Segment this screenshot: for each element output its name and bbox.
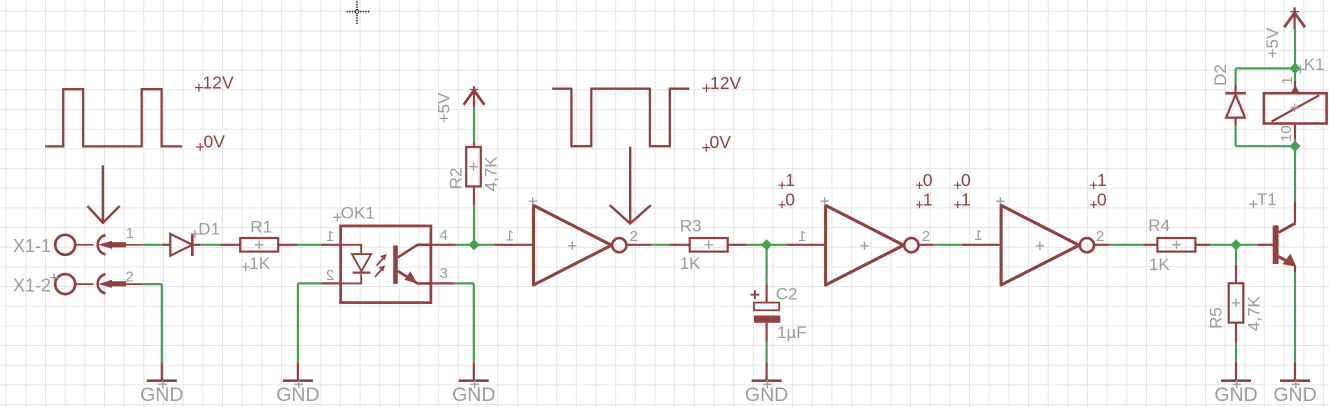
resistor R2 (466, 147, 481, 186)
svg-text:R3: R3 (680, 216, 702, 235)
ground GND (OK1 pin3) (473, 362, 475, 380)
svg-text:R4: R4 (1148, 216, 1170, 235)
resistor R3 (690, 238, 728, 252)
svg-text:1K: 1K (680, 254, 701, 273)
svg-text:0: 0 (923, 170, 933, 190)
ground GND (OK1 pin2) (297, 362, 299, 380)
value 1K (242, 263, 250, 271)
inverter gate U1C (1001, 205, 1079, 285)
relay K1 (1294, 81, 1296, 93)
capacitor C2 (polarized) (754, 303, 779, 311)
wire node to R5 (1235, 245, 1237, 265)
wire node to C2 (765, 245, 767, 284)
svg-text:1: 1 (923, 190, 933, 210)
ground GND (T1 emitter) (1294, 362, 1296, 380)
svg-text:0V: 0V (204, 131, 226, 151)
svg-text:K1: K1 (1304, 55, 1325, 74)
transistor T1 (1258, 244, 1273, 246)
svg-text:GND: GND (276, 384, 319, 406)
label 12V (703, 84, 711, 92)
svg-text:1: 1 (798, 228, 806, 245)
waveform inverted 12V/0V (552, 89, 689, 147)
wire D2 branch bottom (1234, 125, 1236, 146)
wire node to IC1A input (474, 244, 494, 246)
svg-text:0V: 0V (710, 132, 732, 152)
OK1 phototransistor (393, 246, 398, 284)
annotation arrow 1 (102, 165, 104, 222)
svg-text:C2: C2 (776, 284, 798, 303)
ground GND (X1-2) (161, 362, 163, 380)
svg-text:1: 1 (126, 225, 134, 242)
wire OK1 pin2 to GND (298, 282, 321, 284)
svg-text:1: 1 (326, 228, 334, 245)
supply +5V (left) (473, 86, 475, 107)
svg-text:3: 3 (440, 265, 448, 282)
svg-text:0: 0 (961, 170, 971, 190)
wire U1C out to R4 (1109, 244, 1144, 246)
svg-text:0: 0 (785, 190, 795, 210)
annotation arrow 2 (629, 147, 631, 223)
wire U1A output pin (626, 244, 651, 246)
label K1 (1296, 65, 1304, 73)
svg-text:R2: R2 (447, 168, 466, 190)
wire R4 to base node (1210, 244, 1236, 246)
wire +5V to R2 (473, 107, 475, 142)
wire U1B to U1C (933, 244, 962, 246)
svg-text:GND: GND (140, 384, 183, 406)
svg-text:R5: R5 (1206, 307, 1225, 329)
svg-text:X1-2: X1-2 (13, 275, 51, 295)
OK1 light arrows (377, 258, 384, 265)
wire U1B output pin (919, 244, 934, 246)
wire node to U1B input (767, 244, 787, 246)
wire D2 branch top (1236, 67, 1295, 69)
wire +5V down (1294, 29, 1296, 68)
junction top node (1289, 63, 1300, 74)
logic levels 1/0 (1090, 182, 1097, 189)
svg-text:D2: D2 (1211, 64, 1230, 86)
junction node (468, 239, 479, 250)
logic levels 1/0 (779, 182, 786, 189)
junction node C2 (761, 239, 772, 250)
label 0V (702, 144, 710, 152)
svg-text:1: 1 (961, 190, 971, 210)
wire X1-2 to GND (143, 283, 162, 285)
wire R5 bottom pin (1235, 323, 1237, 343)
label OK1 (333, 213, 341, 221)
svg-text:0: 0 (1097, 190, 1107, 210)
svg-text:1µF: 1µF (777, 323, 807, 342)
svg-text:D1: D1 (198, 219, 220, 238)
connector X1-2 (55, 274, 75, 294)
wire R5 to GND (1235, 343, 1237, 363)
svg-text:4,7K: 4,7K (482, 156, 501, 192)
wire OK1 pin3 to GND (431, 282, 455, 284)
logic levels 0/1 (954, 182, 961, 189)
supply +5V (right) (1293, 7, 1295, 29)
wire U1C input pin (962, 244, 1001, 246)
wire X1-1 to D1 (143, 244, 162, 246)
label T1 (1249, 200, 1257, 208)
wire D1 to R1 (200, 244, 220, 246)
svg-text:T1: T1 (1257, 190, 1277, 209)
wire node to T1 base (1236, 244, 1258, 246)
svg-text:+5V: +5V (435, 92, 454, 123)
wire R2 bottom pin (473, 186, 475, 205)
svg-text:2: 2 (326, 267, 334, 284)
svg-text:1K: 1K (1149, 255, 1170, 274)
svg-text:2: 2 (922, 228, 930, 245)
label 0V (196, 143, 204, 151)
wire R4 left pin (1144, 244, 1158, 246)
wire R1 to OK1 (298, 244, 322, 246)
svg-text:+5V: +5V (1263, 27, 1282, 58)
wire U1A out to R3 (652, 244, 670, 246)
svg-text:GND: GND (1214, 384, 1257, 406)
wire relay to bottom node (1294, 139, 1296, 146)
wire R3 right pin (728, 244, 748, 246)
svg-text:2: 2 (630, 228, 638, 245)
wire R1 left pin (221, 244, 241, 246)
inverter gate U1B (826, 205, 904, 285)
ground GND (C2) (765, 362, 767, 380)
wire R4 right pin (1195, 244, 1210, 246)
wire collector (1294, 202, 1296, 224)
svg-text:12V: 12V (710, 73, 741, 93)
resistor R5 (1229, 283, 1244, 322)
label D1 (191, 230, 199, 238)
junction bottom node (1289, 141, 1300, 152)
diode D1 (170, 234, 192, 256)
svg-text:1: 1 (1279, 76, 1296, 84)
junction base node (1230, 239, 1241, 250)
svg-text:1: 1 (785, 170, 795, 190)
svg-text:GND: GND (745, 384, 788, 406)
wire OK1 pin4 to node (431, 244, 456, 246)
wire R1 right pin (278, 244, 298, 246)
wire R2 to node (473, 205, 475, 245)
svg-text:R1: R1 (250, 218, 272, 237)
cursor crosshair (347, 11, 349, 13)
wire C2 to GND (765, 341, 767, 362)
svg-text:1: 1 (506, 227, 514, 244)
OK1 internal LED (341, 245, 362, 284)
svg-text:1K: 1K (249, 254, 270, 273)
resistor R1 (240, 238, 278, 252)
wire R3 to node C2 (747, 244, 766, 246)
svg-text:GND: GND (452, 384, 495, 406)
svg-text:OK1: OK1 (341, 203, 375, 222)
wire R3 left pin (670, 244, 690, 246)
diode D2 (1234, 85, 1236, 92)
resistor R4 (1157, 238, 1195, 252)
svg-text:X1-1: X1-1 (13, 236, 51, 256)
svg-text:4: 4 (440, 227, 448, 244)
connector X1-1 (55, 235, 75, 255)
wire emitter to GND (1294, 267, 1296, 272)
svg-text:12V: 12V (203, 73, 234, 93)
logic levels 0/1 (916, 182, 923, 189)
svg-text:2: 2 (125, 269, 133, 286)
wire U1C output pin (1094, 244, 1109, 246)
waveform input 12V/0V (45, 89, 182, 146)
svg-text:1: 1 (1097, 170, 1107, 190)
svg-text:1: 1 (974, 227, 982, 244)
svg-text:GND: GND (1273, 384, 1316, 406)
svg-text:10: 10 (1278, 125, 1295, 142)
wire to D1 anode (163, 244, 171, 246)
svg-text:4,7K: 4,7K (1245, 295, 1264, 331)
label 12V (195, 84, 203, 92)
svg-text:2: 2 (1096, 228, 1104, 245)
ground GND (R5) (1235, 362, 1237, 380)
optocoupler OK1 (321, 244, 340, 246)
inverter gate U1A (534, 205, 612, 285)
